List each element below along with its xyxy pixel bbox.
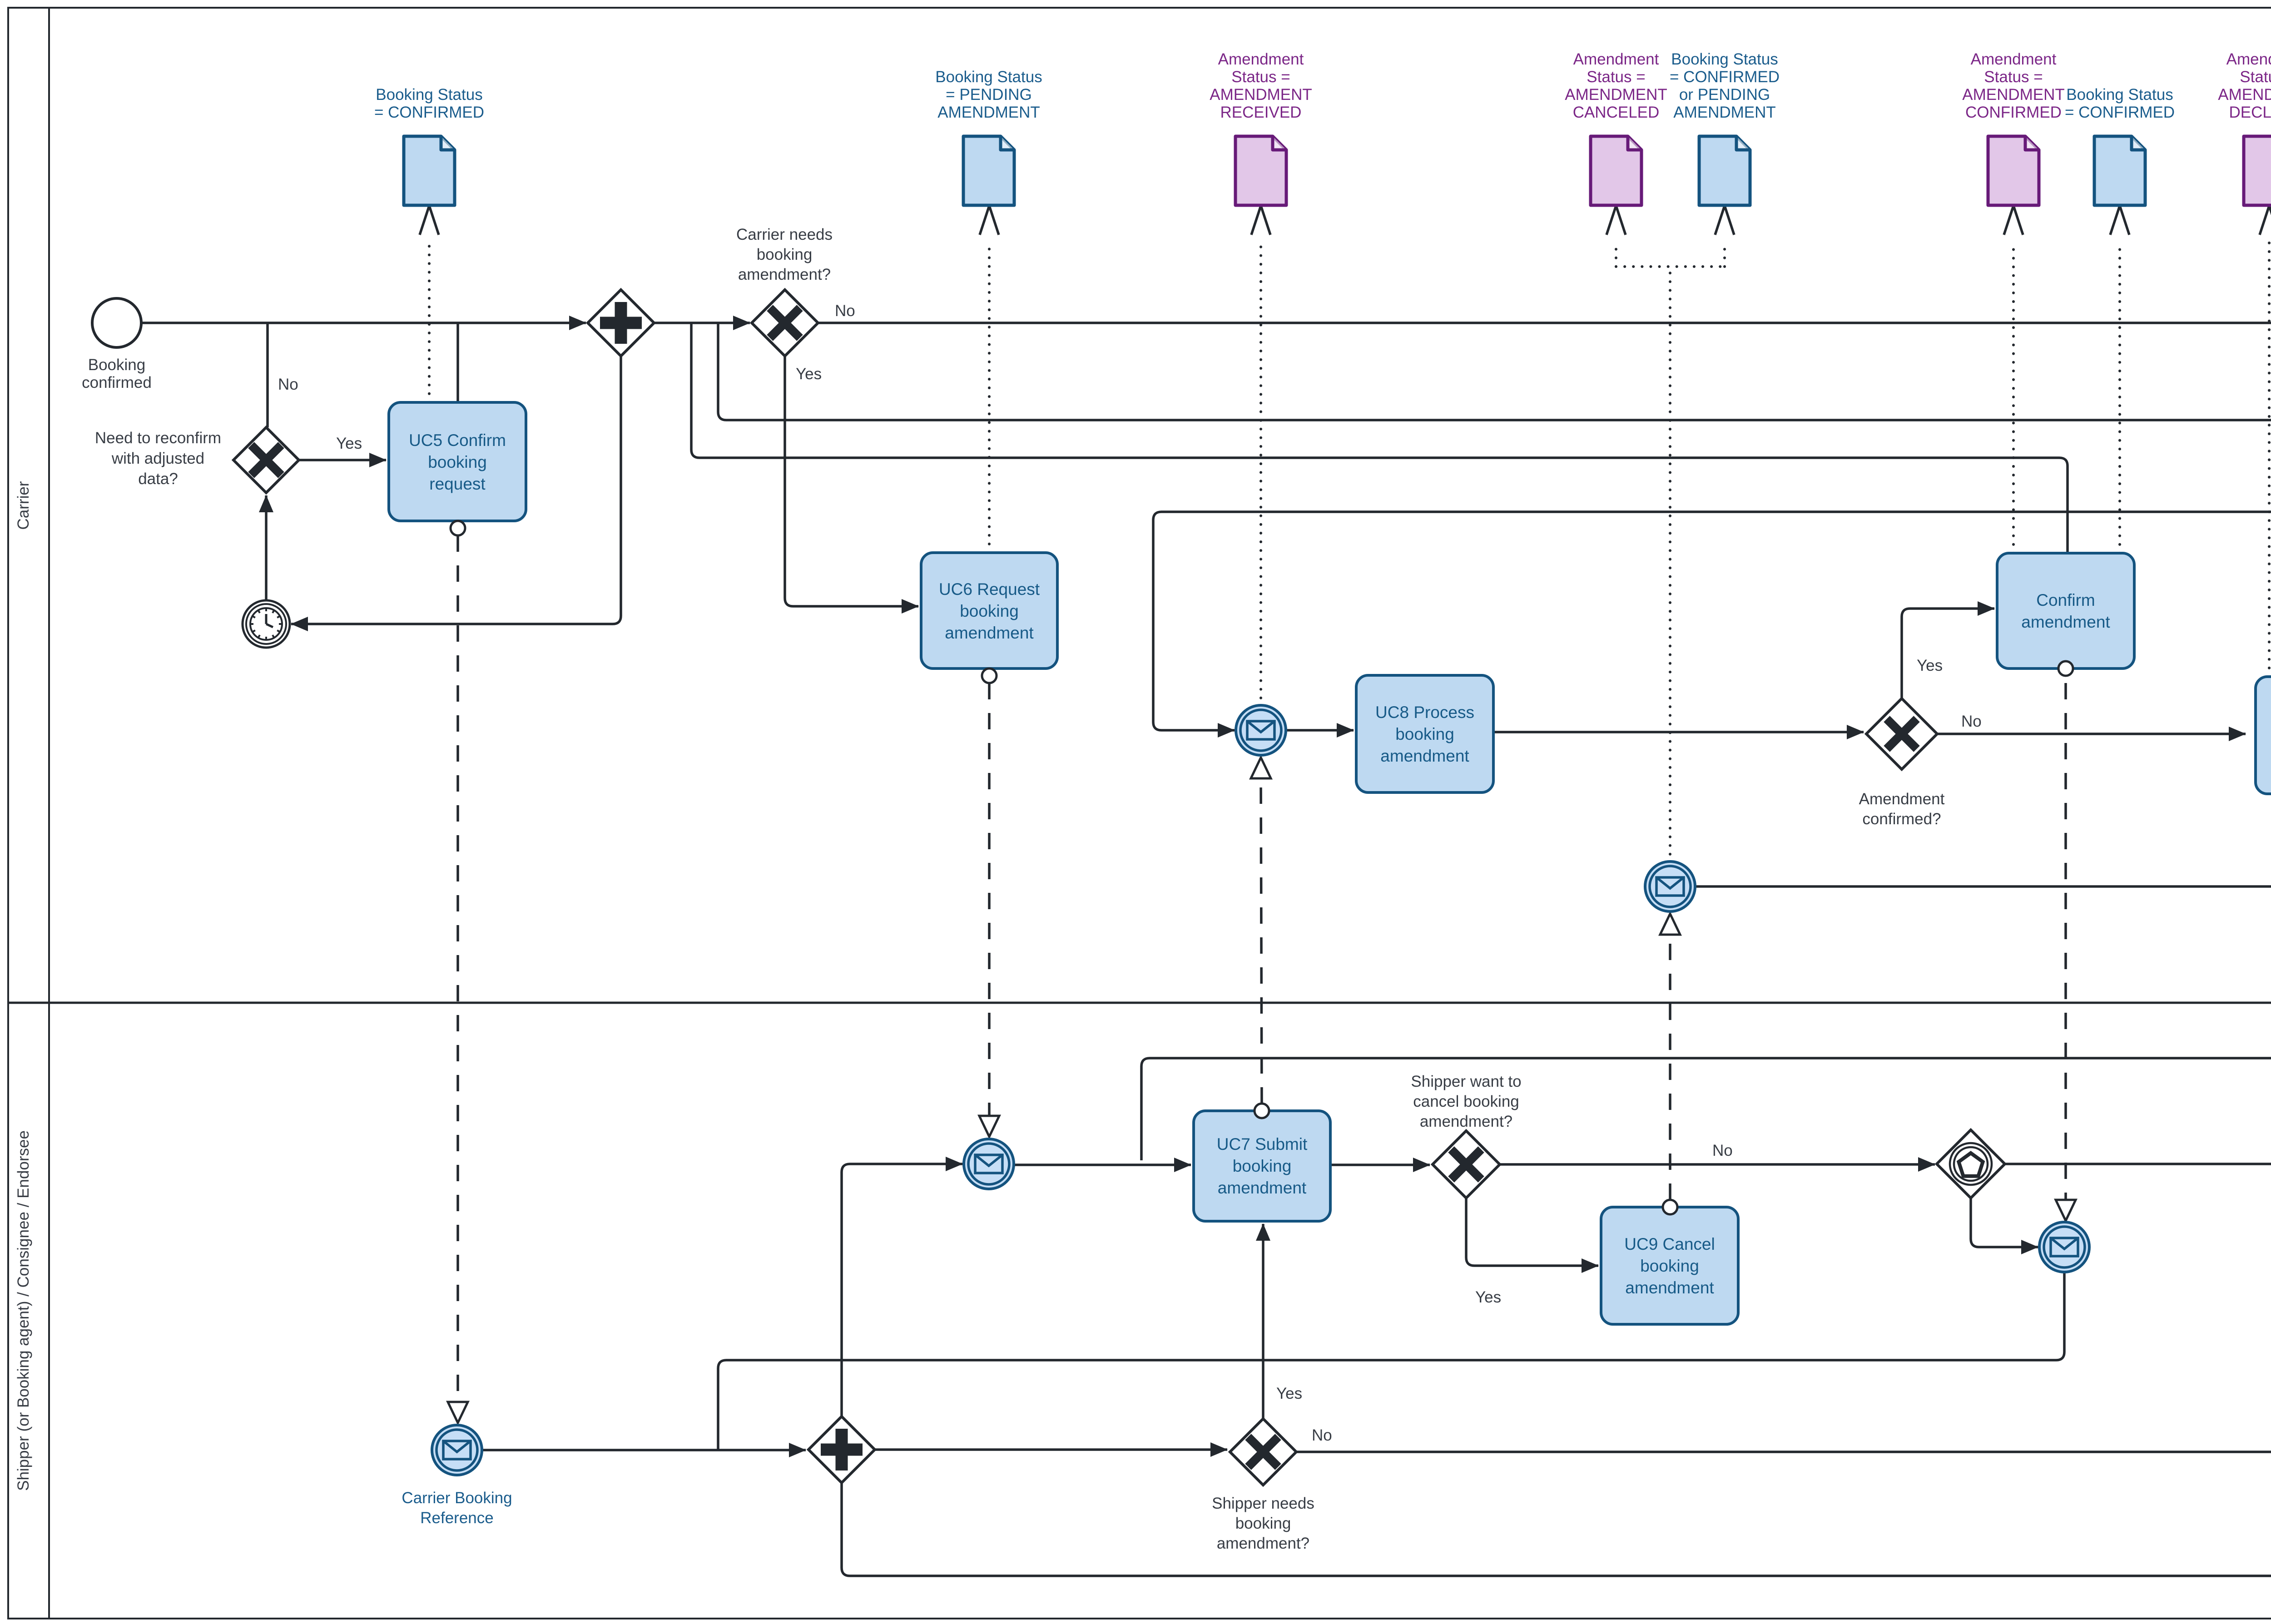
svg-text:Yes: Yes <box>1276 1385 1302 1402</box>
wire Confirm amendment out to main line <box>691 323 2068 553</box>
wire message event confirm loop to parallel gateway <box>718 1271 2064 1450</box>
wire event gateway down to message event confirm <box>1971 1197 2038 1247</box>
svg-text:CANCELED: CANCELED <box>1573 104 1660 121</box>
task UC6 Request booking amendment <box>921 553 1057 668</box>
svg-text:request: request <box>429 475 486 493</box>
task Confirm amendment <box>1997 553 2134 668</box>
association Decline amendment to doc amendment-declined <box>2268 242 2271 677</box>
task UC7 Submit booking amendment <box>1194 1111 1330 1221</box>
svg-text:confirmed?: confirmed? <box>1862 810 1941 828</box>
wire start message to parallel gateway shipper <box>481 1449 806 1451</box>
task UC5 Confirm booking request <box>389 402 526 521</box>
svg-text:amendment: amendment <box>1218 1178 1307 1197</box>
message flow UC9 to message event canceled <box>1669 934 1671 1200</box>
doc booking-confirmed2 <box>2065 86 2175 205</box>
svg-text:booking: booking <box>1235 1515 1291 1532</box>
svg-text:Shipper want to: Shipper want to <box>1411 1073 1521 1090</box>
svg-text:Shipper needs: Shipper needs <box>1212 1495 1314 1512</box>
message event confirm (catch) <box>2039 1222 2089 1272</box>
svg-text:No: No <box>1312 1426 1332 1444</box>
timer event <box>243 600 290 648</box>
svg-text:Booking Status: Booking Status <box>2066 86 2173 104</box>
doc amendment-declined <box>2218 50 2271 205</box>
wire gateway want-cancel No to event gateway <box>1500 1163 1935 1166</box>
message flow UC5 to Carrier Booking Reference <box>456 535 459 1401</box>
svg-text:or PENDING: or PENDING <box>1679 86 1770 104</box>
message event pending (catch) <box>964 1139 1014 1189</box>
svg-text:Reference: Reference <box>420 1509 493 1527</box>
svg-text:amendment?: amendment? <box>1420 1113 1512 1130</box>
svg-text:Amendment: Amendment <box>2226 50 2271 68</box>
wire UC8 to gateway amendment-confirmed <box>1493 731 1864 733</box>
message port UC7 <box>1255 1104 1269 1118</box>
svg-text:AMENDMENT: AMENDMENT <box>937 104 1040 121</box>
svg-text:No: No <box>1712 1142 1733 1159</box>
svg-text:booking: booking <box>757 246 813 263</box>
svg-text:Status =: Status = <box>1231 68 1290 86</box>
svg-text:UC9 Cancel: UC9 Cancel <box>1624 1235 1715 1253</box>
svg-text:amendment: amendment <box>1380 747 1469 765</box>
svg-text:= CONFIRMED: = CONFIRMED <box>1670 68 1780 86</box>
wire gateway shipper-needs No to message event completed <box>1296 1451 2271 1453</box>
wire message event canceled out to decline line <box>1694 734 2271 886</box>
svg-text:Amendment: Amendment <box>1218 50 1304 68</box>
association Confirm amendment to doc amendment-confirmed <box>2012 242 2015 553</box>
wire gateway pending Yes loop to message event amendment <box>1153 512 2271 730</box>
svg-text:amendment?: amendment? <box>738 266 831 283</box>
message event amendment (catch) <box>1236 705 1286 755</box>
message flow UC7 to message event amendment <box>1261 779 1262 1104</box>
svg-text:Amendment: Amendment <box>1573 50 1659 68</box>
svg-text:CONFIRMED: CONFIRMED <box>1965 104 2062 121</box>
svg-text:Yes: Yes <box>1475 1288 1501 1306</box>
message flow UC6 to message event pending <box>988 683 991 1115</box>
svg-text:with adjusted: with adjusted <box>111 450 204 467</box>
svg-text:amendment: amendment <box>945 624 1034 642</box>
wire gateway want-cancel Yes to UC9 <box>1466 1198 1598 1266</box>
svg-text:UC5 Confirm: UC5 Confirm <box>409 431 506 450</box>
svg-text:UC6 Request: UC6 Request <box>939 580 1040 599</box>
wire gateway amendment-confirmed No to Decline amendment <box>1937 733 2246 735</box>
wire parallel gateway shipper down loop to message event completed <box>842 1478 2271 1576</box>
svg-text:amendment: amendment <box>2021 613 2110 631</box>
svg-text:Carrier: Carrier <box>15 481 32 530</box>
wire parallel gateway shipper up to message event pending <box>842 1164 962 1416</box>
doc amendment-canceled <box>1565 50 1667 205</box>
start message event Carrier Booking Reference <box>432 1425 482 1475</box>
doc amendment-confirmed <box>1962 50 2065 205</box>
svg-text:Yes: Yes <box>796 365 822 383</box>
task UC9 Cancel booking amendment <box>1601 1207 1738 1324</box>
association message event amendment to doc amendment-received <box>1259 242 1262 707</box>
wire parallel gateway down-left to timer <box>291 356 621 624</box>
doc booking-confirmed <box>374 86 484 205</box>
message flow Confirm amendment to message event confirm <box>2064 683 2067 1200</box>
svg-text:= CONFIRMED: = CONFIRMED <box>2065 104 2175 121</box>
svg-text:Status =: Status = <box>1587 68 1645 86</box>
gateway carrier-needs-amendment (X) <box>752 290 818 356</box>
wire main line branch down to gateway reconfirm <box>266 323 269 427</box>
wire message event declined resubmit loop to UC7 <box>1141 1058 2271 1166</box>
svg-text:RECEIVED: RECEIVED <box>1220 104 1302 121</box>
wire timer up to gateway reconfirm <box>265 495 268 600</box>
svg-text:AMENDMENT: AMENDMENT <box>1673 104 1776 121</box>
svg-text:Booking Status: Booking Status <box>376 86 482 104</box>
association Confirm amendment to doc booking-confirmed2 <box>2118 242 2121 553</box>
wire gateway shipper-needs Yes to UC7 <box>1262 1224 1264 1419</box>
wire start to parallel gateway <box>141 322 586 324</box>
svg-text:Booking: Booking <box>88 356 145 374</box>
svg-text:amendment?: amendment? <box>1217 1535 1309 1552</box>
svg-text:Amendment: Amendment <box>1971 50 2057 68</box>
wire message event amendment to UC8 <box>1284 729 1354 732</box>
wire gateway reconfirm Yes to UC5 <box>299 459 386 461</box>
svg-text:AMENDMENT: AMENDMENT <box>1565 86 1667 104</box>
lane divider <box>8 1002 2271 1004</box>
svg-text:Booking Status: Booking Status <box>935 68 1042 86</box>
svg-text:= PENDING: = PENDING <box>946 86 1032 104</box>
pool label strip divider <box>48 8 50 1619</box>
wire UC7 to gateway want-cancel <box>1330 1164 1430 1166</box>
wire UC5 out up to main line <box>456 323 459 402</box>
task Decline amendment <box>2256 677 2271 794</box>
svg-text:AMENDMENT: AMENDMENT <box>1962 86 2065 104</box>
doc confirmed-or-pending <box>1670 50 1780 205</box>
svg-text:Carrier Booking: Carrier Booking <box>402 1489 512 1507</box>
gateway parallel carrier (+) <box>588 290 654 356</box>
svg-text:booking: booking <box>428 453 487 471</box>
doc pending-amendment <box>935 68 1042 205</box>
svg-text:No: No <box>1961 713 1982 730</box>
task UC8 Process booking amendment <box>1356 675 1493 792</box>
svg-text:cancel booking: cancel booking <box>1413 1093 1519 1110</box>
svg-text:booking: booking <box>1233 1157 1292 1175</box>
message port UC5 <box>451 521 465 535</box>
svg-text:Yes: Yes <box>336 435 362 452</box>
wire parallel gateway shipper to gateway shipper-needs <box>875 1448 1227 1451</box>
svg-text:DECLINED: DECLINED <box>2229 104 2271 121</box>
svg-text:Carrier needs: Carrier needs <box>736 226 833 243</box>
gateway shipper-want-cancel (X) <box>1433 1131 1500 1198</box>
doc amendment-received <box>1210 50 1312 205</box>
svg-text:No: No <box>278 376 298 393</box>
svg-text:Amendment: Amendment <box>1859 790 1945 808</box>
message port UC9 <box>1663 1200 1677 1214</box>
svg-text:Booking Status: Booking Status <box>1671 50 1778 68</box>
svg-text:booking: booking <box>960 602 1019 620</box>
wire gateway carrier-needs Yes to UC6 <box>785 356 918 606</box>
wire gateway pending No loop to main line <box>718 323 2271 731</box>
association UC6 to doc pending-amendment <box>988 242 991 553</box>
svg-text:confirmed: confirmed <box>82 374 152 391</box>
svg-text:= CONFIRMED: = CONFIRMED <box>374 104 484 121</box>
wire message event pending to UC7 <box>1012 1164 1191 1166</box>
svg-text:AMENDMENT: AMENDMENT <box>1210 86 1312 104</box>
wire gateway amendment-confirmed Yes to Confirm amendment <box>1902 609 1994 698</box>
svg-text:Shipper (or Booking agent) / C: Shipper (or Booking agent) / Consignee /… <box>15 1130 32 1491</box>
gateway shipper-needs-amendment (X) <box>1230 1419 1296 1485</box>
svg-text:Status =: Status = <box>1984 68 2043 86</box>
svg-text:Need to reconfirm: Need to reconfirm <box>95 429 221 447</box>
message event canceled (catch) <box>1645 862 1695 911</box>
svg-text:amendment: amendment <box>1625 1278 1714 1297</box>
svg-text:AMENDMENT: AMENDMENT <box>2218 86 2271 104</box>
start event booking confirmed <box>92 298 141 347</box>
gateway event-based (pentagon) <box>1937 1130 2005 1198</box>
svg-text:UC8 Process: UC8 Process <box>1375 703 1474 722</box>
gateway reconfirm (X) <box>233 427 299 493</box>
svg-text:Status =: Status = <box>2240 68 2271 86</box>
wire parallel gateway to gateway carrier-needs <box>654 322 750 324</box>
svg-text:Yes: Yes <box>1917 657 1943 674</box>
svg-text:UC7 Submit: UC7 Submit <box>1217 1135 1308 1154</box>
association UC5 to doc booking-confirmed <box>428 242 431 402</box>
gateway parallel shipper (+) <box>808 1416 875 1483</box>
svg-text:data?: data? <box>138 470 178 488</box>
wire gateway carrier-needs No to UC12 <box>818 322 2271 324</box>
wire event gateway right to message event declined <box>2004 1163 2271 1165</box>
svg-text:No: No <box>835 302 855 320</box>
gateway amendment-confirmed (X) <box>1866 698 1937 769</box>
svg-text:booking: booking <box>1395 725 1454 743</box>
association message event canceled to docs canceled and confirmed-or-pending <box>1616 242 1725 863</box>
svg-text:Confirm: Confirm <box>2036 591 2095 609</box>
message port UC6 <box>982 668 997 683</box>
message port Confirm amendment <box>2058 661 2073 676</box>
svg-text:booking: booking <box>1640 1257 1699 1275</box>
